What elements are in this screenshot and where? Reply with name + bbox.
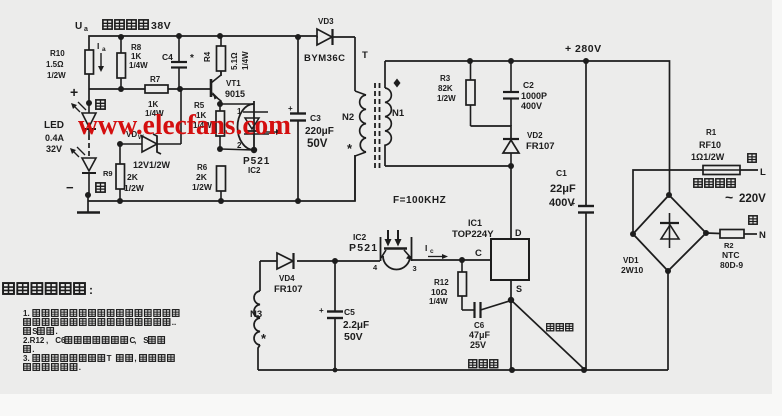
node junction S: [508, 297, 514, 303]
label R4 value: [203, 51, 250, 70]
node junction R6 bottom: [218, 198, 224, 204]
node junction C2 top: [508, 58, 514, 64]
svg-text:R12: R12: [434, 278, 449, 287]
resistor R10: [85, 50, 94, 104]
svg-text:1/4W: 1/4W: [241, 51, 250, 70]
wire S to power ground: [511, 300, 584, 369]
label IC2 P521 lower: [349, 232, 378, 254]
label L terminal: [760, 167, 766, 178]
svg-text:a: a: [84, 26, 88, 33]
svg-text:50V: 50V: [307, 138, 328, 150]
wire dashed LED link: [88, 135, 90, 158]
label opto pin 3: [413, 264, 417, 273]
resistor R3: [466, 61, 475, 126]
label zener value: [133, 160, 171, 170]
svg-text:5.1Ω: 5.1Ω: [230, 52, 239, 70]
label VD3: [318, 17, 334, 26]
svg-text:9015: 9015: [225, 89, 245, 99]
svg-text:1K: 1K: [131, 52, 141, 61]
svg-text:T: T: [362, 50, 368, 61]
phototransistor IC2: [381, 230, 412, 270]
svg-text:1/4W: 1/4W: [129, 61, 148, 70]
svg-text:400V: 400V: [549, 197, 575, 209]
svg-text:,: ,: [134, 336, 136, 345]
svg-text:N: N: [759, 230, 766, 241]
label opto pin 1: [237, 107, 242, 116]
resistor R9: [116, 144, 125, 201]
wire bridge left to fuse: [633, 170, 703, 234]
wire base row: [89, 88, 211, 90]
wire bridge bottom: [667, 271, 669, 370]
svg-text:RF10: RF10: [699, 140, 721, 150]
LED upper: [71, 102, 96, 135]
label note line4: [23, 336, 165, 345]
svg-text:R3: R3: [440, 74, 451, 83]
LED lower: [70, 147, 96, 196]
wire VD3 anode: [317, 36, 318, 38]
svg-text:LED: LED: [44, 120, 64, 131]
label C1 plus: [571, 201, 575, 208]
resistor R4: [217, 36, 226, 76]
label N3: [250, 309, 262, 320]
svg-text:R10: R10: [50, 49, 65, 58]
svg-text:VD1: VD1: [623, 256, 639, 265]
bridge rectifier VD1: [630, 192, 709, 274]
svg-text:VT1: VT1: [226, 79, 241, 88]
zener VDw: [120, 134, 181, 154]
svg-text:50V: 50V: [344, 331, 363, 343]
label IC1 TOP224Y: [452, 218, 494, 240]
wire bridge right: [706, 232, 720, 235]
svg-text:a: a: [102, 46, 106, 53]
label 白 white lead: [96, 183, 105, 192]
svg-text:+: +: [70, 84, 78, 100]
label T: [362, 50, 368, 61]
svg-text:1/2W: 1/2W: [47, 71, 66, 80]
svg-text:T: T: [107, 354, 112, 363]
capacitor C6: [462, 301, 511, 319]
svg-text:R9: R9: [103, 169, 113, 178]
label N2: [342, 112, 354, 123]
svg-text:3: 3: [413, 264, 417, 273]
svg-text:400V: 400V: [521, 101, 542, 111]
svg-text:N3: N3: [250, 309, 262, 320]
label VD1 2W10: [621, 256, 643, 275]
label N1: [392, 108, 405, 119]
svg-text:1.: 1.: [23, 309, 30, 318]
node junction VD2-drain: [508, 163, 514, 169]
svg-text:C5: C5: [344, 307, 355, 317]
svg-text:..: ..: [172, 318, 176, 327]
node junction LED cathode: [85, 192, 91, 198]
svg-text:C: C: [475, 248, 482, 259]
svg-text:10Ω: 10Ω: [431, 287, 447, 297]
wire zener riser: [180, 89, 182, 144]
node junction power ground: [581, 367, 587, 373]
label C6 value: [469, 321, 491, 350]
capacitor C5: [327, 261, 343, 370]
label pin D: [515, 228, 522, 238]
svg-text:I: I: [425, 243, 427, 253]
capacitor C4: [171, 36, 187, 89]
svg-text:47μF: 47μF: [469, 330, 491, 340]
svg-text:NTC: NTC: [722, 250, 739, 260]
wire opto pin1: [220, 103, 254, 105]
svg-text:22μF: 22μF: [550, 183, 576, 195]
wire 280V rail: [385, 61, 670, 195]
svg-text:C6: C6: [55, 336, 66, 345]
svg-text:c: c: [430, 248, 434, 255]
svg-text:C3: C3: [310, 113, 321, 123]
svg-text:FR107: FR107: [526, 141, 555, 152]
svg-text:S: S: [516, 284, 522, 294]
label C4: [162, 52, 194, 64]
watermark: [78, 109, 291, 141]
label VDw: [126, 130, 144, 141]
svg-text:.: .: [32, 345, 34, 354]
svg-text:220V: 220V: [739, 193, 766, 205]
svg-text:32V: 32V: [46, 144, 62, 154]
node junction C1 top: [583, 58, 589, 64]
label pin S: [516, 284, 522, 294]
svg-text:C1: C1: [556, 168, 567, 178]
svg-text:U: U: [75, 21, 82, 32]
node junction zener-R9: [117, 141, 123, 147]
label R7 value: [145, 75, 164, 118]
svg-text:0.4A: 0.4A: [45, 133, 65, 143]
svg-text:.: .: [56, 327, 58, 336]
capacitor C2: [503, 61, 519, 126]
capacitor C1: [578, 61, 594, 370]
label N3 phase star: [261, 331, 267, 346]
label R9 value: [103, 169, 145, 193]
svg-text:2: 2: [237, 141, 242, 150]
label opto pin 2: [237, 141, 242, 150]
label N terminal: [759, 230, 766, 241]
resistor R8: [117, 37, 126, 89]
wire top rail: [89, 36, 317, 50]
svg-text:*: *: [190, 53, 194, 64]
svg-text:C6: C6: [474, 321, 485, 330]
svg-text:N2: N2: [342, 112, 354, 123]
wire bottom rail: [258, 369, 668, 371]
svg-text:,: ,: [46, 336, 48, 345]
svg-text:N1: N1: [392, 108, 405, 119]
svg-text:2K: 2K: [196, 172, 208, 182]
svg-text:2.R12: 2.R12: [23, 336, 45, 345]
capacitor C3: [290, 114, 306, 202]
label note line7: [24, 363, 81, 372]
label 设计特别说明 heading: [3, 283, 93, 297]
node junction R5-R6: [217, 146, 223, 152]
svg-text:C4: C4: [162, 52, 173, 62]
label VD4 FR107: [274, 274, 303, 295]
svg-text:−: −: [66, 180, 74, 195]
op-amp IC1 TOP224Y box: [491, 239, 529, 280]
resistor R6: [217, 166, 226, 201]
svg-text:www.elecfans.com: www.elecfans.com: [78, 109, 291, 141]
label 过压保护 38V: [103, 20, 171, 32]
node junction R12 top: [459, 257, 465, 263]
svg-text:.: .: [79, 363, 81, 372]
svg-text:VD3: VD3: [318, 17, 334, 26]
label LED value: [44, 120, 65, 154]
label N2 phase star: [347, 141, 353, 156]
label C5 plus: [319, 306, 324, 315]
label R12 value: [429, 278, 449, 306]
svg-text::: :: [89, 283, 93, 297]
diode VD4: [277, 253, 294, 269]
svg-text:C2: C2: [523, 80, 534, 90]
svg-text:1000P: 1000P: [521, 91, 547, 101]
node junction left column: [86, 100, 92, 106]
node top rail junction C4: [176, 33, 182, 39]
svg-text:FR107: FR107: [274, 284, 303, 295]
winding N3: [254, 261, 260, 370]
svg-text:R4: R4: [203, 51, 212, 62]
label 电源地: [547, 324, 573, 331]
svg-text:3.: 3.: [23, 354, 30, 363]
label N1 phase dot: [394, 79, 401, 88]
svg-text:F=100KHZ: F=100KHZ: [393, 195, 446, 206]
label 红 red: [748, 154, 756, 162]
svg-text:1K: 1K: [148, 100, 158, 109]
svg-text:2K: 2K: [127, 172, 139, 182]
label 保险电阻: [694, 179, 735, 187]
node junction R3 top: [467, 58, 473, 64]
svg-text:R7: R7: [150, 75, 161, 84]
label R10 value: [46, 49, 66, 80]
wire S to control ground: [510, 300, 512, 370]
label F=100KHZ: [393, 195, 446, 206]
label C5 value: [343, 307, 369, 343]
label C1 value: [549, 168, 576, 209]
node junction R8 bottom: [118, 86, 124, 92]
svg-text:~: ~: [725, 189, 733, 205]
svg-text:1.5Ω: 1.5Ω: [46, 60, 64, 69]
svg-text:12V1/2W: 12V1/2W: [133, 160, 171, 170]
winding N1: [385, 61, 391, 166]
node junction R9 bottom: [117, 198, 123, 204]
label battery plus: [70, 84, 78, 100]
winding N2: [355, 91, 366, 201]
label 黑 black: [749, 216, 757, 224]
label R8 value: [129, 43, 148, 70]
diode VD2: [503, 139, 519, 166]
diode VD3: [317, 29, 355, 45]
fuse resistor R1: [703, 166, 758, 175]
label note line5: [24, 345, 35, 354]
svg-text:80D-9: 80D-9: [720, 260, 743, 270]
svg-text:IC2: IC2: [248, 166, 261, 175]
wire opto pin2: [220, 149, 254, 150]
label R1 RF10: [691, 128, 725, 162]
label R5 value: [193, 101, 212, 130]
svg-text:IC2: IC2: [353, 232, 367, 242]
resistor R12: [458, 260, 467, 310]
transistor VT1: [211, 71, 221, 104]
label C2 value: [521, 80, 547, 111]
node top rail junction C3: [295, 34, 301, 40]
wire collector row: [412, 259, 492, 261]
label note line1: [23, 309, 179, 318]
node junction C5 top: [332, 258, 338, 264]
svg-text:D: D: [515, 228, 522, 238]
wire C3 branch top: [297, 37, 299, 113]
svg-text:VD4: VD4: [279, 274, 295, 283]
label P521 IC2: [243, 156, 270, 175]
label C3 plus: [288, 104, 293, 113]
svg-text:+: +: [319, 306, 324, 315]
node junction C4-zener: [177, 86, 183, 92]
svg-text:82K: 82K: [438, 84, 453, 93]
wire snubber bottom: [471, 126, 512, 139]
node junction S ground: [509, 367, 515, 373]
svg-text:IC1: IC1: [468, 218, 482, 228]
svg-text:220μF: 220μF: [305, 126, 334, 137]
label VT1 9015: [225, 79, 245, 99]
svg-text:VD2: VD2: [527, 131, 543, 140]
svg-text:+ 280V: + 280V: [565, 43, 602, 55]
label Ia current arrow: [97, 41, 106, 72]
wire N1 bottom: [385, 166, 511, 239]
svg-text:25V: 25V: [470, 340, 486, 350]
label C node: [475, 248, 482, 259]
wire bottom-left rail: [88, 155, 355, 201]
node top rail junction R8: [118, 34, 124, 40]
label 兰 blue lead: [96, 100, 105, 109]
label +280V: [565, 43, 602, 55]
node junction C3 bottom: [295, 198, 301, 204]
label ~220V: [725, 189, 766, 205]
label C3 value: [305, 113, 334, 150]
node top rail junction R4: [217, 33, 223, 39]
svg-text:1/2W: 1/2W: [192, 182, 213, 192]
ground: [77, 195, 100, 213]
svg-text:TOP224Y: TOP224Y: [452, 229, 494, 240]
svg-text:R8: R8: [131, 43, 142, 52]
svg-text:2W10: 2W10: [621, 265, 643, 275]
svg-text:2.2μF: 2.2μF: [343, 320, 369, 331]
resistor R5: [216, 104, 225, 149]
svg-text:R2: R2: [724, 241, 734, 250]
node junction opto pin2: [251, 147, 257, 153]
svg-text:R6: R6: [197, 163, 208, 172]
svg-text:BYM36C: BYM36C: [304, 53, 346, 64]
thermistor R2 NTC: [720, 230, 757, 239]
svg-text:,: ,: [134, 354, 136, 363]
label note line3: [24, 327, 58, 336]
svg-text:I: I: [97, 41, 99, 51]
label BYM36C: [304, 53, 346, 64]
wire feedback row left: [297, 260, 380, 262]
label 控制地: [469, 360, 498, 368]
label R3 value: [437, 74, 456, 103]
svg-text:1Ω1/2W: 1Ω1/2W: [691, 152, 725, 162]
label opto pin 4: [373, 263, 378, 272]
wire primary top: [354, 37, 356, 91]
svg-text:L: L: [760, 167, 766, 178]
optocoupler IC2 LED side: [238, 101, 282, 152]
svg-text:1/2W: 1/2W: [437, 94, 456, 103]
resistor R7: [145, 85, 168, 93]
label R2 NTC: [720, 241, 743, 270]
transformer core: [375, 83, 380, 168]
node Ua label: [75, 21, 88, 33]
node junction VT1 emitter: [217, 101, 223, 107]
svg-text:1/2W: 1/2W: [124, 183, 145, 193]
label VD2 FR107: [526, 131, 555, 152]
label battery minus: [66, 180, 74, 195]
label note line6: [23, 354, 174, 363]
svg-text:38V: 38V: [151, 20, 171, 32]
node junction C5 bottom: [333, 368, 338, 373]
svg-text:P521: P521: [349, 242, 378, 254]
svg-text:1/4W: 1/4W: [429, 297, 448, 306]
label note line2: [24, 318, 177, 327]
svg-text:R1: R1: [706, 128, 717, 137]
wire VD4 anode: [260, 260, 277, 262]
label Ic arrow: [425, 243, 448, 259]
wire drain stub: [510, 280, 512, 300]
label R6 value: [192, 163, 213, 192]
